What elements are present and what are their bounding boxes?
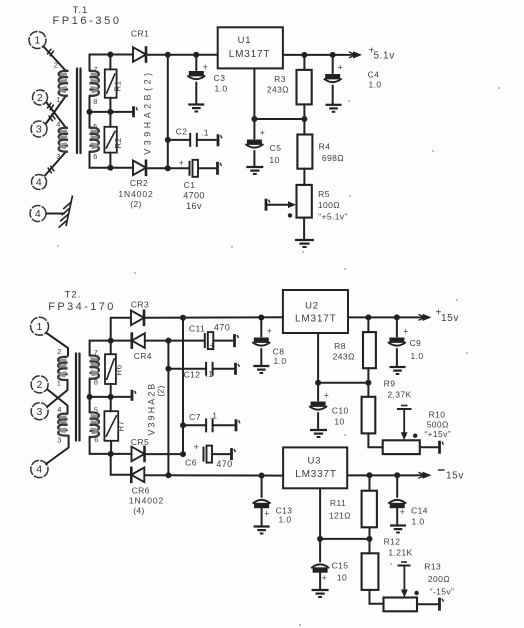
wire U3 ADJ node to R11/R12 junction (320, 538, 369, 540)
wire C8 to ground (260, 349, 262, 366)
svg-text:CR2: CR2 (130, 178, 148, 188)
svg-text:R1: R1 (114, 80, 123, 91)
node C3 tap (193, 52, 199, 58)
svg-text:10: 10 (337, 573, 347, 583)
node R3/R4 junction (301, 116, 307, 122)
svg-text:C1: C1 (184, 180, 196, 190)
terminal 3 (T1) (31, 121, 47, 137)
wire C14 tap down (396, 475, 398, 497)
wire R10 wiper arrow (403, 409, 405, 434)
varistor R1 (109, 55, 111, 70)
break mark on terminal4 wire (50, 166, 54, 172)
wire pin7 up to top rail (90, 55, 134, 71)
svg-text:16v: 16v (186, 201, 202, 211)
svg-text:+: + (210, 341, 216, 351)
svg-text:2: 2 (57, 347, 62, 356)
output arrow +5.1V (347, 54, 355, 56)
svg-text:8: 8 (94, 378, 99, 387)
node R10 wiper tie (413, 434, 417, 438)
wire positive bus vertical (182, 318, 184, 454)
svg-text:5: 5 (94, 406, 99, 415)
varistor R6 (110, 341, 112, 355)
wire ADJ node to R3/R4 junction (254, 118, 304, 120)
wire to capacitor C2 (168, 139, 190, 141)
svg-text:C12: C12 (184, 370, 201, 380)
wire pin7 up to CR rail (T2) (90, 341, 132, 356)
wire CR5 cathode to positive bus (146, 453, 183, 455)
svg-text:LM317T: LM317T (229, 49, 271, 60)
potentiometer R13 (384, 598, 418, 612)
ground (C15) (312, 589, 329, 591)
svg-text:C10: C10 (332, 406, 349, 416)
wire CR1 cathode to U1 input (148, 54, 218, 56)
wire U2 output rail (348, 316, 418, 318)
capacitor C6 (203, 447, 205, 462)
svg-text:R5: R5 (318, 189, 330, 199)
diode CR3 (131, 311, 144, 326)
wire CR3 cathode to U2 input (146, 316, 283, 319)
common terminal bar (T2 mid rail) (131, 390, 134, 401)
svg-text:R7: R7 (117, 420, 126, 431)
svg-text:+: + (194, 442, 200, 452)
svg-text:2.37K: 2.37K (387, 390, 411, 400)
break mark on terminal1 wire (47, 49, 51, 55)
wire cathode bus vertical (167, 55, 169, 169)
output arrow +15V (417, 316, 425, 318)
node positive bus top (CR3 cathode) (180, 315, 186, 321)
capacitor C2 (189, 133, 191, 147)
svg-text:+: + (267, 326, 273, 336)
diode CR2 (133, 161, 146, 176)
wire C5 tap down (253, 119, 255, 139)
wire pin6 down to bottom rail (90, 152, 134, 168)
svg-text:LM317T: LM317T (295, 314, 337, 325)
svg-text:R9: R9 (384, 379, 396, 389)
terminal 3 (T2) (31, 403, 48, 420)
svg-text:+: + (260, 128, 266, 138)
wire U3 output rail (347, 474, 418, 476)
svg-text:1.0: 1.0 (273, 356, 286, 366)
svg-text:(2): (2) (156, 385, 166, 396)
wire terminal4b-to-chassis (47, 213, 65, 215)
svg-text:1.0: 1.0 (411, 517, 424, 527)
transformer T2 secondary winding top (pins 7-8) (90, 356, 99, 379)
svg-text:1.0: 1.0 (410, 351, 423, 361)
wire terminal2-to-pin4 (crossing) (47, 103, 67, 128)
common terminal bar (R13) (438, 598, 441, 611)
terminal 2 (T1) (33, 90, 48, 105)
svg-text:1.0: 1.0 (214, 84, 227, 94)
wire terminal2-to-pin4 (T2 crossing) (48, 390, 68, 414)
svg-text:698Ω: 698Ω (322, 153, 344, 163)
svg-text:R13: R13 (424, 562, 441, 572)
svg-text:3: 3 (57, 436, 62, 445)
svg-text:C2: C2 (176, 127, 188, 137)
transformer T2 primary winding bottom (pins 4-3) (58, 414, 67, 436)
svg-text:CR4: CR4 (134, 351, 152, 361)
svg-text:3: 3 (36, 124, 42, 136)
wire C9 to ground (396, 349, 398, 367)
capacitor C5 (247, 140, 262, 145)
wire mid rail to common (T2) (90, 396, 130, 398)
wire C8 tap down (260, 318, 262, 337)
node R11 top (367, 472, 373, 478)
transformer T1 primary winding bottom (pins 4-3) (59, 128, 68, 152)
svg-text:1: 1 (36, 321, 42, 333)
svg-text:2: 2 (37, 92, 43, 104)
node R5 wiper tie (288, 213, 292, 217)
svg-text:5.1v: 5.1v (374, 51, 395, 62)
svg-text:R11: R11 (330, 498, 346, 508)
svg-text:C5: C5 (270, 143, 282, 153)
svg-text:4: 4 (35, 208, 41, 220)
varistor R2 (109, 112, 111, 127)
wire C14 to ground (396, 508, 398, 525)
common terminal bar (C2) (217, 134, 220, 146)
wire terminal3-to-pin1 (crossing) (46, 96, 66, 124)
capacitor C9 (389, 338, 404, 343)
svg-text:LM337T: LM337T (295, 469, 337, 480)
node C4 top (330, 52, 336, 58)
diode CR6 (cathode left) (131, 468, 144, 483)
svg-text:FP34-170: FP34-170 (48, 301, 116, 313)
svg-text:C6: C6 (185, 458, 197, 468)
svg-text:+: + (403, 327, 409, 337)
svg-text:U3: U3 (308, 456, 322, 467)
node negative bus bottom (165, 472, 171, 478)
svg-text:15v: 15v (446, 471, 464, 482)
svg-text:.1: .1 (210, 411, 218, 421)
node R1 top (107, 52, 113, 58)
svg-text:1: 1 (57, 379, 62, 388)
regulator U2 box (283, 290, 348, 333)
diode CR1 (133, 47, 146, 62)
ground (C10) (310, 429, 327, 431)
svg-text:C3: C3 (214, 73, 226, 83)
capacitor C8 (254, 338, 269, 343)
ground (C3) (188, 103, 204, 105)
svg-text:“-15v”: “-15v” (430, 587, 455, 597)
svg-text:4700: 4700 (183, 191, 205, 201)
svg-text:CR1: CR1 (131, 29, 149, 39)
terminal 1 (T2) (31, 317, 49, 335)
wire R13 to common bar (417, 603, 438, 605)
svg-text:1N4002: 1N4002 (129, 496, 164, 506)
svg-text:C4: C4 (368, 70, 380, 80)
capacitor C12 (205, 362, 207, 376)
node R3 top (301, 52, 307, 58)
capacitor C1 (189, 161, 191, 176)
svg-text:243Ω: 243Ω (333, 352, 355, 362)
svg-text:2: 2 (36, 379, 42, 391)
wire C2 to common bar (197, 139, 216, 141)
svg-text:(2): (2) (130, 199, 142, 209)
common terminal bar (R10) (438, 441, 441, 454)
resistor R11 (369, 475, 371, 490)
wire U2 ADJ node to R8/R9 junction (318, 382, 368, 384)
svg-text:V39HA2B(2): V39HA2B(2) (143, 69, 153, 154)
potentiometer R10 (383, 440, 420, 454)
ground (C13) (254, 525, 270, 527)
ground (C8) (253, 365, 269, 367)
transformer T1 core (76, 69, 78, 154)
terminal 4 (T1) (32, 175, 47, 190)
ground (R5) (295, 239, 314, 241)
node C12 tap (165, 366, 171, 372)
svg-text:R4: R4 (319, 142, 331, 152)
wire R10 to common bar (420, 446, 438, 448)
common terminal bar (R5 wiper) (265, 199, 268, 211)
node CR1/CR2 cathode junction (165, 52, 171, 58)
node ADJ junction (U2) (315, 380, 321, 386)
wire CR6 anode to U3 input (145, 474, 283, 476)
svg-text:“+5.1v”: “+5.1v” (318, 212, 348, 222)
ground (C5) (246, 166, 263, 168)
svg-text:4: 4 (36, 464, 42, 476)
svg-text:4: 4 (36, 177, 42, 189)
wire C5 to ground (253, 151, 255, 167)
wire U3 ADJ down (319, 488, 321, 539)
node negative bus top (165, 338, 171, 344)
terminal 2 (T2) (31, 376, 48, 393)
node R8/R9 junction (365, 380, 371, 386)
svg-text:FP16-350: FP16-350 (52, 15, 121, 27)
capacitor C7 (205, 418, 207, 432)
svg-text:+: + (179, 158, 185, 168)
capacitor C13 (reversed) (254, 503, 269, 508)
svg-text:6: 6 (94, 435, 99, 444)
svg-text:R12: R12 (384, 537, 401, 547)
resistor R9 (367, 383, 369, 397)
wire C10 to ground (317, 413, 319, 430)
transformer T1 primary winding top (pins 2-1) (59, 71, 68, 96)
scan speckles (noise) (348, 100, 350, 102)
svg-text:C11: C11 (189, 324, 205, 334)
wire C1 to common bar (199, 167, 216, 169)
resistor R12 (369, 539, 371, 553)
node R13 wiper tie (414, 591, 418, 595)
node CR3/CR4/R6 junction (108, 338, 114, 344)
wire C7 to common bar (213, 424, 234, 426)
svg-text:3: 3 (36, 406, 42, 418)
wire to capacitor C12 (168, 368, 206, 370)
wire junction up to CR3 anode (111, 318, 131, 341)
svg-text:C14: C14 (411, 506, 428, 516)
resistor R8 (367, 317, 369, 332)
wire U1 ADJ down (253, 68, 255, 119)
common terminal bar (C12) (234, 363, 237, 375)
break mark on terminal3 wire (51, 114, 55, 120)
wire C4 to ground (332, 86, 334, 105)
svg-text:1.0: 1.0 (278, 515, 291, 525)
wire pin8-pin5 center tap vertical (T2) (89, 379, 91, 413)
terminal 4 chassis (T1) (30, 206, 46, 222)
svg-text:3: 3 (56, 152, 61, 161)
transformer T2 primary winding top (pins 2-1) (58, 357, 67, 380)
common terminal bar (C7) (235, 419, 238, 431)
wire terminal1-to-pin2 (T2) (47, 333, 69, 356)
transformer T2 core (75, 354, 77, 441)
wire U2 ADJ down (317, 333, 319, 383)
chassis ground (T1 terminal 4) (66, 196, 73, 227)
svg-text:1: 1 (34, 35, 40, 47)
wire R5 wiper arrow (268, 204, 289, 206)
svg-text:.1: .1 (206, 369, 214, 379)
wire U1 output rail (283, 54, 348, 56)
svg-text:+: + (264, 509, 270, 519)
wire terminal3-to-pin1 (T2 crossing) (48, 380, 68, 407)
svg-text:+: + (322, 573, 328, 583)
wire terminal4-to-pin3 (45, 152, 66, 176)
common terminal bar (C11) (233, 334, 236, 347)
svg-text:10: 10 (334, 417, 344, 427)
svg-text:8: 8 (93, 97, 98, 106)
terminal 4 (T2) (31, 460, 48, 477)
svg-text:CR6: CR6 (132, 486, 150, 496)
wire junction down to CR6 cathode (111, 454, 132, 475)
svg-text:C7: C7 (189, 412, 201, 422)
wire R13 wiper arrow (403, 566, 405, 592)
ground stub (R10 wiper) (397, 408, 412, 410)
wire pin6 down to CR5 rail (90, 437, 132, 454)
svg-text:U1: U1 (238, 35, 252, 46)
capacitor C15 (reversed) (313, 567, 328, 572)
wire C4 tap down (332, 55, 334, 73)
node C9 top (394, 314, 400, 320)
svg-text:4: 4 (57, 405, 62, 414)
node R2 bottom (107, 165, 113, 171)
capacitor C3 (189, 71, 204, 76)
node R1 bottom on mid rail (107, 109, 113, 115)
svg-text:R3: R3 (274, 74, 286, 84)
wire C3 to ground (195, 83, 197, 105)
svg-text:7: 7 (94, 348, 99, 357)
node C13 tap (259, 473, 265, 479)
svg-text:6: 6 (93, 152, 98, 161)
svg-text:10: 10 (269, 155, 279, 165)
node ADJ junction (U1) (251, 116, 257, 122)
wire CR4 anode to C11 (145, 340, 204, 342)
svg-text:2: 2 (54, 61, 59, 70)
svg-text:U2: U2 (305, 301, 319, 312)
ground (C9) (390, 366, 406, 368)
svg-text:C15: C15 (332, 561, 349, 571)
wire terminal1-to-pin2 (44, 47, 67, 72)
common terminal bar (C6) (230, 448, 233, 460)
capacitor C10 (311, 402, 326, 407)
node C6/CR5 junction (180, 451, 186, 457)
svg-text:1: 1 (56, 95, 61, 104)
svg-text:500Ω: 500Ω (427, 420, 449, 430)
diode CR4 (cathode left) (132, 333, 145, 348)
capacitor C4 (325, 74, 340, 79)
output arrow -15V (417, 474, 425, 476)
ground stub (R13 wiper) (398, 565, 411, 567)
svg-text:470: 470 (216, 459, 232, 469)
svg-text:R6: R6 (115, 364, 124, 375)
wire C11 to common bar (214, 340, 233, 342)
wire to capacitor C1 (168, 167, 189, 169)
svg-text:T2.: T2. (65, 290, 82, 301)
common terminal bar (T1 mid rail) (132, 106, 135, 117)
capacitor C11 (204, 333, 206, 348)
node ADJ junction (U3) (317, 536, 323, 542)
svg-text:15v: 15v (441, 313, 459, 324)
svg-text:+: + (203, 62, 209, 72)
svg-text:7: 7 (93, 65, 98, 74)
node C2 tap (165, 137, 171, 143)
wire pin8-pin5 center tap vertical (89, 96, 91, 128)
svg-text:243Ω: 243Ω (267, 85, 289, 95)
ground (C14) (390, 524, 406, 526)
wire mid rail to common (90, 111, 132, 113)
regulator U1 box (218, 27, 283, 68)
wire C15 to ground (319, 573, 321, 590)
wire C10 tap down (317, 383, 319, 401)
svg-text:470: 470 (214, 323, 230, 333)
break mark on terminal2 wire (47, 103, 51, 109)
node CR5/CR6/R7 junction (108, 451, 114, 457)
svg-text:+: + (400, 507, 406, 517)
svg-text:CR3: CR3 (131, 300, 149, 310)
node center tap (T2) (87, 394, 93, 400)
svg-text:1.21K: 1.21K (388, 548, 412, 558)
svg-text:“+15v”: “+15v” (424, 429, 451, 439)
svg-text:C8: C8 (273, 347, 285, 357)
wire to capacitor C7 (183, 424, 206, 426)
svg-text:(4): (4) (133, 506, 145, 516)
node R11/R12 junction (367, 536, 373, 542)
transformer T1 secondary winding top (pins 7-8) (90, 71, 99, 96)
wire C15 tap down (319, 539, 321, 562)
wire C13 to ground (261, 508, 263, 526)
wire C9 tap down (396, 317, 398, 336)
svg-text:121Ω: 121Ω (329, 511, 351, 521)
svg-text:.1: .1 (201, 128, 209, 138)
wire terminal4-to-pin3 (T2) (46, 436, 69, 465)
svg-text:200Ω: 200Ω (428, 574, 450, 584)
svg-text:R10: R10 (429, 410, 446, 420)
resistor R4 (303, 119, 305, 135)
svg-text:+: + (324, 391, 330, 401)
common terminal bar (C1) (216, 162, 219, 175)
svg-text:R2: R2 (114, 137, 123, 148)
wire C13 tap down (261, 476, 263, 498)
svg-text:1N4002: 1N4002 (118, 189, 153, 199)
node C1 tap (165, 165, 171, 171)
diode CR5 (132, 447, 145, 462)
ground (C4) (326, 104, 342, 106)
wire C3 tap down (195, 55, 197, 70)
node R6/R7 mid-rail junction (108, 394, 114, 400)
node R8 top (365, 314, 371, 320)
potentiometer R5 (297, 185, 312, 218)
node C14 top (394, 472, 400, 478)
svg-text:+: + (338, 63, 344, 73)
wire C6 to common bar (212, 453, 229, 455)
svg-text:4: 4 (56, 120, 61, 129)
transformer T2 secondary winding bottom (pins 5-6) (90, 412, 99, 437)
wire C12 to common bar (213, 368, 234, 370)
wire CR2 cathode to junction (148, 167, 168, 169)
svg-text:1.0: 1.0 (368, 80, 381, 90)
terminal 1 (T1) (29, 32, 46, 49)
svg-text:100Ω: 100Ω (318, 200, 340, 210)
regulator U3 box (283, 447, 347, 488)
node C7 tap (180, 422, 186, 428)
node C8 tap (258, 315, 264, 321)
varistor R7 (110, 397, 112, 411)
